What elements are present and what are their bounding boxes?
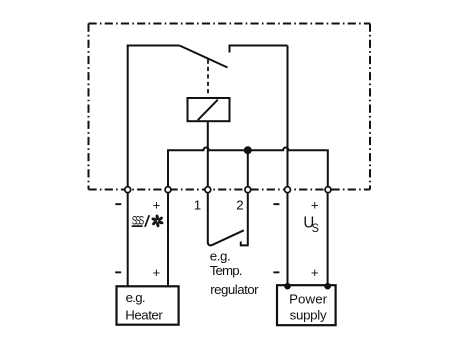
svg-text:+: + <box>153 265 161 280</box>
svg-text:Heater: Heater <box>125 307 163 322</box>
svg-text:Temp.: Temp. <box>210 263 243 278</box>
svg-text:+: + <box>311 197 319 212</box>
svg-text:regulator: regulator <box>210 282 259 297</box>
svg-text:supply: supply <box>290 307 327 322</box>
svg-text:Power: Power <box>289 292 328 307</box>
svg-text:2: 2 <box>236 197 243 212</box>
svg-text:+: + <box>311 265 319 280</box>
svg-text:e.g.: e.g. <box>126 290 146 305</box>
svg-text:S: S <box>312 221 319 235</box>
svg-text:+: + <box>153 197 161 212</box>
svg-text:1: 1 <box>194 197 201 212</box>
svg-text:e.g.: e.g. <box>210 249 231 264</box>
